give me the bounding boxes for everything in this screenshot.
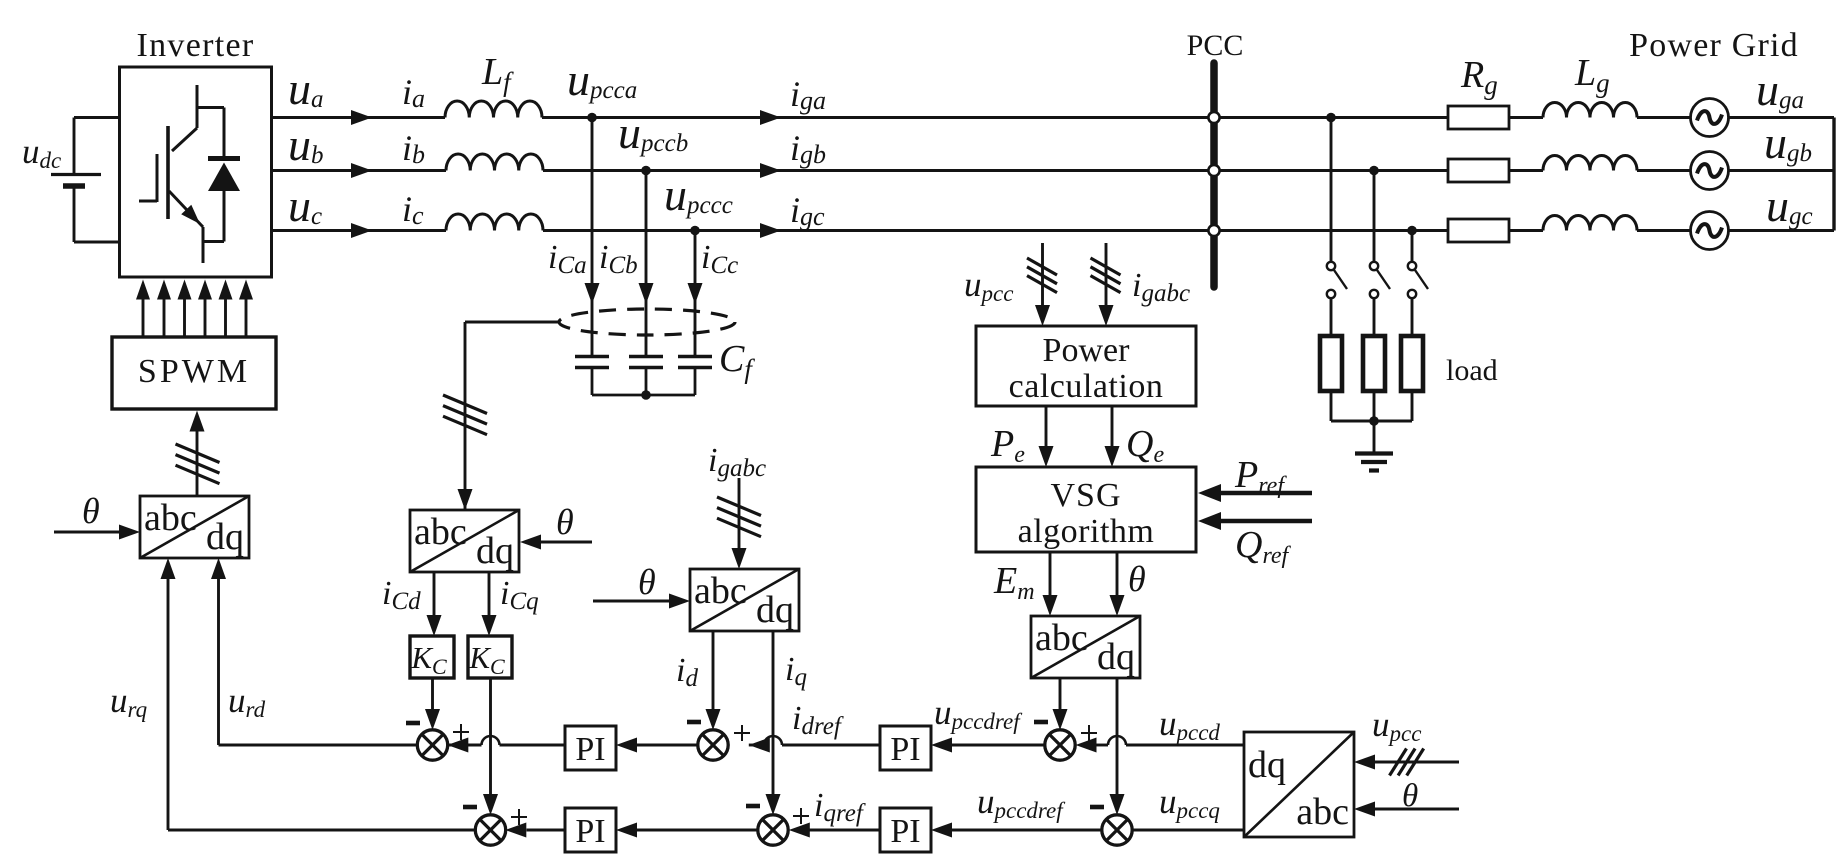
label u_dc — [22, 132, 61, 173]
arrow i_gabc T3 — [732, 548, 747, 569]
arrow theta into abc/dq T4 — [1110, 595, 1125, 616]
sum junction S2 — [698, 730, 728, 760]
label i_gb — [790, 128, 826, 169]
SPWM box — [112, 337, 276, 409]
arrow into S3 from T5 — [1076, 738, 1097, 753]
label u_a — [288, 63, 324, 114]
arrow i_d into sum S2 — [706, 709, 721, 730]
arrow i_Cq into Kc2 — [482, 615, 497, 636]
sum junction S6 — [1102, 815, 1132, 845]
wire phase c inverter to filter — [272, 229, 447, 232]
label i_ga — [790, 74, 826, 115]
arrow i_Ca — [585, 283, 600, 304]
wire i_d — [712, 631, 715, 711]
arrow i_gc — [760, 223, 781, 238]
label u_rd — [228, 681, 266, 722]
svg-text:algorithm: algorithm — [1018, 513, 1155, 550]
load impedances (three phase) — [1320, 336, 1423, 421]
wire cap common bus — [592, 394, 695, 397]
wire u_pcc tap — [1041, 243, 1044, 307]
three-phase mark T3 input — [717, 497, 761, 537]
wire i_Cq — [488, 572, 491, 615]
sum junction S1 — [417, 730, 447, 760]
arrow i_Cb — [639, 283, 654, 304]
three-phase mark u_pcc T5 — [1390, 749, 1424, 776]
abc/dq block T3 — [690, 569, 799, 631]
hop over i_q wire — [764, 736, 782, 745]
abc/dq block T4 — [1031, 616, 1140, 678]
arrow P_e — [1039, 446, 1054, 467]
wire cap branch a — [591, 118, 594, 357]
measurement ellipse (dashed) — [559, 309, 735, 335]
arrow into PI3 — [616, 823, 637, 838]
wire P_ref — [1220, 491, 1312, 496]
plus S4 — [511, 809, 527, 825]
arrow into sum S4 — [483, 794, 498, 815]
wire T4 out d — [1059, 679, 1062, 711]
arrow i_Cc — [688, 283, 703, 304]
arrow theta T2 — [520, 535, 541, 550]
minus S2 — [687, 720, 701, 725]
label i_Ca — [548, 239, 587, 279]
wire S6 to PI4 — [952, 829, 1102, 832]
svg-text:abc: abc — [1296, 791, 1349, 833]
sum junction S5 — [758, 815, 788, 845]
three-phase mark on cap measurement wire — [443, 395, 487, 435]
label i_a — [402, 72, 425, 113]
wire T4 out q (theta) — [1116, 679, 1119, 796]
wire S3 to PI2 — [952, 744, 1045, 747]
label L_g — [1574, 52, 1610, 98]
label i_q — [785, 651, 807, 691]
arrow into sum S3 — [1053, 709, 1068, 730]
wire load bus to ground — [1373, 421, 1376, 452]
label Inverter — [137, 27, 255, 64]
label VSG algorithm — [1018, 477, 1155, 550]
arrow into PI2 — [931, 738, 952, 753]
arrow u_rd into T1 — [211, 558, 226, 579]
wire Kc2 down — [489, 678, 492, 796]
load switches (three phase) — [1326, 113, 1428, 336]
label u_pccdref row2 — [977, 782, 1066, 823]
label u_c — [288, 180, 322, 231]
arrow into S2 from PI2 — [749, 738, 770, 753]
wire T1 to SPWM — [196, 430, 199, 496]
svg-text:abc: abc — [1035, 617, 1088, 659]
wire theta into T2 — [541, 541, 592, 544]
battery Udc short plate — [63, 183, 85, 189]
arrow i_ga — [760, 110, 781, 125]
resistors Rg (three phase) — [1448, 106, 1509, 242]
wire udc left upper — [73, 118, 76, 175]
arrow into PI4 — [931, 823, 952, 838]
wire S1 to u_rd corner — [219, 579, 418, 745]
label Q_e — [1126, 423, 1164, 468]
arrow theta T5 — [1354, 802, 1375, 817]
wire S2 region: PI1 to S1 — [447, 744, 565, 747]
minus S3 — [1034, 720, 1048, 725]
three-phase mark T1-SPWM wire — [176, 444, 220, 484]
svg-text:abc: abc — [414, 511, 467, 553]
wire Rg to Lg — [1509, 118, 1543, 231]
arrow into SPWM — [190, 411, 205, 432]
label i_dref — [792, 700, 844, 740]
label u_pccd — [1159, 704, 1220, 745]
label theta (T5 input) — [1402, 778, 1418, 814]
plus S2 — [734, 725, 750, 741]
wire Kc1 to sum S1 — [431, 678, 434, 711]
svg-text:θ: θ — [82, 491, 100, 531]
arrow into S1 from PI1 — [447, 738, 468, 753]
label u_rq — [110, 681, 147, 722]
node u_pccb dot — [641, 166, 651, 176]
PI box 4 — [880, 808, 931, 852]
label i_b — [402, 128, 425, 169]
label i_qref — [814, 787, 866, 827]
label theta (T3 input) — [638, 562, 656, 602]
arrow i_gabc into power calc — [1099, 305, 1114, 326]
svg-text:abc: abc — [144, 497, 197, 539]
arrow into abc/dq T2 — [458, 489, 473, 510]
wire S5 to PI3 — [637, 829, 758, 832]
wire i_gabc tap — [1105, 243, 1108, 307]
minus S6 — [1090, 805, 1104, 810]
label u_pccdref row1 — [934, 693, 1023, 734]
wire cap branch c — [694, 231, 697, 357]
svg-text:PI: PI — [575, 813, 605, 850]
three-phase mark i_gabc tap — [1091, 258, 1121, 293]
plus S5 — [793, 808, 809, 824]
load common bus — [1331, 420, 1412, 423]
label theta (VSG out) — [1128, 559, 1146, 599]
label P_ref — [1234, 454, 1287, 499]
ground — [1355, 454, 1393, 471]
wire S2 to PI1 — [637, 744, 698, 747]
wire udc bottom — [74, 241, 120, 244]
PI box 2 — [880, 726, 931, 770]
label i_gc — [790, 190, 825, 231]
abc/dq block T1 — [140, 496, 249, 558]
wire T5 to S6 (u_pccq) — [1132, 829, 1244, 832]
svg-text:load: load — [1446, 354, 1498, 387]
Power calculation box — [976, 326, 1196, 406]
svg-text:calculation: calculation — [1009, 368, 1164, 405]
inverter U1 box — [120, 67, 272, 277]
PCC node a — [1208, 112, 1219, 123]
svg-text:Inverter: Inverter — [137, 27, 255, 64]
label L_f — [481, 51, 514, 97]
arrow i_Cd into Kc1 — [427, 615, 442, 636]
label i_Cc — [701, 239, 738, 279]
dq/abc block T5 — [1244, 732, 1354, 837]
label C_f — [719, 338, 755, 384]
arrow i_gb — [760, 163, 781, 178]
minus S1 — [406, 721, 420, 726]
svg-text:SPWM: SPWM — [138, 353, 250, 390]
arrow P_ref — [1198, 484, 1221, 502]
svg-text:θ: θ — [556, 502, 574, 542]
wire i_Cd — [433, 572, 436, 615]
inductor Lf phase c — [446, 214, 543, 231]
wire S4 to u_rq corner — [168, 579, 476, 830]
gain block K_C 2 — [468, 636, 512, 679]
PCC bus bar — [1210, 63, 1218, 287]
wire PI4 to S5 — [809, 829, 880, 832]
label i_c — [402, 189, 424, 230]
arrow u_pcc into power calc — [1035, 305, 1050, 326]
wire udc left lower — [73, 186, 76, 242]
label SPWM — [138, 353, 250, 390]
label i_Cd — [382, 575, 421, 615]
abc/dq block T2 — [410, 510, 519, 572]
wire E_m — [1049, 552, 1052, 595]
svg-text:θ: θ — [638, 562, 656, 602]
wire Q_ref — [1220, 519, 1312, 524]
svg-text:PI: PI — [575, 731, 605, 768]
arrow theta T3 — [669, 594, 690, 609]
sum junction S4 — [475, 815, 505, 845]
node load bus dot — [1369, 416, 1379, 426]
PCC node c — [1208, 225, 1219, 236]
arrow into sum S6 — [1110, 794, 1125, 815]
arrow u_c — [351, 223, 372, 238]
wire cap branch b — [645, 171, 648, 357]
label u_pcc (tap) — [964, 265, 1013, 306]
plus S1 — [453, 724, 469, 740]
label u_pcc (T5 input) — [1372, 705, 1421, 746]
label i_Cq — [500, 575, 539, 615]
wire theta into T5 — [1375, 808, 1459, 811]
label u_pccc — [664, 169, 733, 220]
battery Udc long plate — [51, 173, 101, 176]
node u_pccc dot — [690, 226, 700, 236]
arrow into sum S1 — [425, 709, 440, 730]
svg-text:θ: θ — [1128, 559, 1146, 599]
label Q_ref — [1235, 524, 1292, 569]
arrow into PI1 — [616, 738, 637, 753]
label i_d — [676, 652, 698, 692]
wire PI2 to S2 — [749, 744, 880, 747]
arrow Q_e — [1105, 446, 1120, 467]
wire theta into T1 — [54, 531, 119, 534]
inductors Lg (three phase) — [1543, 103, 1637, 231]
gain block K_C 1 — [410, 636, 454, 679]
three-phase mark u_pcc tap — [1027, 258, 1057, 293]
label i_Cb — [599, 239, 638, 279]
wire P_e — [1045, 406, 1048, 446]
arrow u_pcc T5 — [1354, 755, 1375, 770]
svg-text:dq: dq — [476, 530, 514, 572]
inductor Lf phase b — [446, 154, 543, 170]
svg-text:abc: abc — [694, 570, 747, 612]
wire theta into T3 — [593, 600, 669, 603]
wire PI3 to S4 — [527, 829, 566, 832]
plus S3 — [1081, 725, 1097, 741]
label load — [1446, 354, 1498, 387]
wire udc top — [74, 116, 120, 119]
arrow E_m — [1043, 595, 1058, 616]
wire i_gabc into T3 — [738, 478, 741, 548]
svg-text:Power: Power — [1043, 332, 1131, 369]
svg-text:PI: PI — [890, 813, 920, 850]
wire phase b inverter to filter — [272, 169, 447, 172]
svg-text:PI: PI — [890, 731, 920, 768]
capacitors Cf (three phase) — [575, 357, 712, 396]
arrow into S4 from PI3 — [505, 823, 526, 838]
svg-text:VSG: VSG — [1050, 477, 1121, 514]
label PCC — [1187, 29, 1244, 62]
wire phase a filter to Rg — [542, 116, 1448, 119]
arrow u_a — [351, 110, 372, 125]
inductor Lf phase a — [445, 101, 542, 117]
label P_e — [990, 423, 1025, 468]
label u_b — [288, 119, 324, 170]
VSG algorithm box — [976, 467, 1196, 552]
transistor IGBT — [139, 85, 224, 263]
label theta (T1 input) — [82, 491, 100, 531]
PI box 1 — [565, 726, 616, 770]
svg-text:Power Grid: Power Grid — [1629, 27, 1799, 64]
wire phase a inverter to filter — [272, 116, 446, 119]
svg-text:dq: dq — [206, 516, 244, 558]
minus S4 — [463, 805, 477, 810]
wire ellipse to abc/dq — [465, 322, 559, 510]
arrow theta T1 — [119, 525, 140, 540]
label u_pccq — [1159, 782, 1220, 823]
PI box 3 — [565, 808, 616, 852]
hop over theta wire — [1108, 736, 1126, 745]
node cap bus dot — [641, 390, 651, 400]
hop over i_Cq wire — [482, 736, 500, 745]
arrow into S5 from PI4 — [789, 823, 810, 838]
sum junction S3 — [1045, 730, 1075, 760]
minus S5 — [746, 804, 760, 809]
label R_g — [1460, 54, 1498, 100]
svg-text:PCC: PCC — [1187, 29, 1244, 62]
label u_gb — [1764, 117, 1812, 168]
wire T5 to S3 (u_pccd) — [1097, 744, 1245, 747]
grid neutral bus — [1832, 118, 1835, 231]
label u_pcca — [567, 54, 637, 105]
svg-text:dq: dq — [756, 589, 794, 631]
svg-text:dq: dq — [1248, 744, 1286, 786]
PCC node b — [1208, 165, 1219, 176]
label E_m — [993, 560, 1035, 605]
label u_pccb — [618, 107, 688, 158]
arrow u_rq into T1 — [161, 558, 176, 579]
wire theta from VSG — [1116, 552, 1119, 595]
label i_gabc (tap) — [1132, 267, 1190, 307]
arrow i_q into sum S5 — [766, 794, 781, 815]
arrow Q_ref — [1198, 512, 1221, 530]
label i_gabc (T3 input) — [708, 442, 766, 482]
label Power Grid — [1629, 27, 1799, 64]
wire phase b filter to Rg — [543, 169, 1448, 172]
diode antiparallel — [197, 108, 240, 242]
label u_gc — [1766, 180, 1813, 231]
arrow u_b — [351, 163, 372, 178]
label Power calculation — [1009, 332, 1164, 405]
svg-text:dq: dq — [1097, 636, 1135, 678]
wire u_pcc into T5 — [1375, 761, 1459, 764]
label u_ga — [1756, 64, 1804, 115]
AC sources u_g (three phase) — [1637, 99, 1834, 250]
gate drive arrows SPWM to inverter — [136, 280, 253, 338]
wire i_q — [772, 631, 775, 796]
node u_pcca dot — [587, 113, 597, 123]
wire Q_e — [1111, 406, 1114, 446]
label theta (T2 input) — [556, 502, 574, 542]
wire phase c filter to Rg — [543, 229, 1448, 232]
